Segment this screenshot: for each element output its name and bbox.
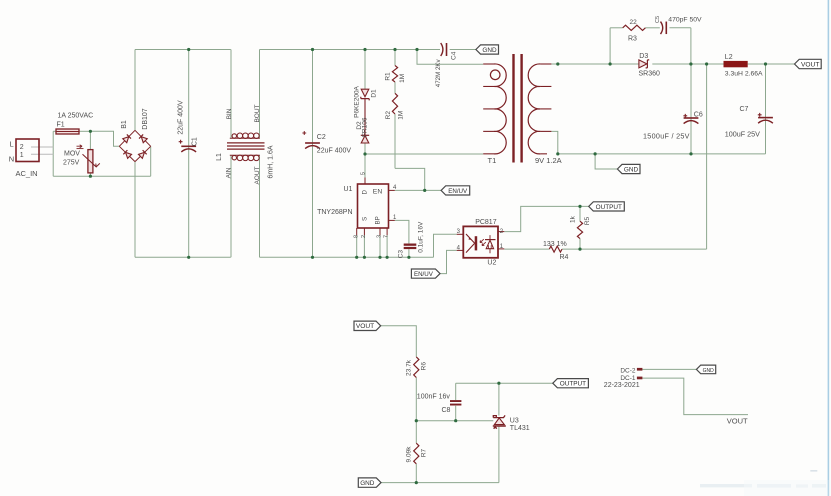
svg-text:C8: C8	[442, 407, 451, 414]
svg-text:BP: BP	[375, 216, 382, 224]
svg-text:3: 3	[377, 235, 383, 238]
svg-text:AIN: AIN	[225, 167, 232, 178]
svg-text:SR360: SR360	[639, 70, 661, 77]
svg-text:1k: 1k	[569, 215, 576, 223]
svg-text:OUTPUT: OUTPUT	[596, 204, 622, 211]
svg-text:U1: U1	[344, 186, 353, 193]
svg-text:9V 1.2A: 9V 1.2A	[535, 156, 562, 165]
svg-text:GND: GND	[703, 368, 715, 374]
svg-text:470pF 50V: 470pF 50V	[668, 17, 702, 24]
svg-text:DC-1: DC-1	[620, 375, 636, 382]
svg-text:EN/UV: EN/UV	[448, 188, 468, 195]
svg-text:U3: U3	[510, 417, 519, 424]
svg-text:23.7k: 23.7k	[405, 359, 412, 376]
svg-text:P6KE200A: P6KE200A	[354, 85, 361, 117]
svg-text:7: 7	[384, 235, 390, 238]
svg-text:L2: L2	[725, 54, 733, 61]
svg-text:0.1uF, 16V: 0.1uF, 16V	[417, 221, 424, 253]
svg-text:22: 22	[630, 19, 638, 26]
svg-text:C4: C4	[451, 51, 458, 60]
svg-text:EN/UV: EN/UV	[414, 271, 434, 278]
svg-text:S: S	[361, 217, 368, 221]
svg-text:5: 5	[361, 172, 367, 175]
svg-text:D3: D3	[639, 53, 648, 60]
svg-text:R2: R2	[385, 111, 392, 120]
svg-text:3.3uH 2.66A: 3.3uH 2.66A	[725, 70, 763, 77]
svg-text:R4: R4	[560, 254, 569, 261]
svg-text:VOUT: VOUT	[801, 61, 819, 68]
svg-text:GND: GND	[624, 166, 639, 173]
svg-text:R1: R1	[385, 72, 392, 81]
svg-text:C6: C6	[694, 112, 703, 119]
svg-text:T1: T1	[488, 156, 497, 165]
svg-text:D1: D1	[371, 89, 378, 98]
svg-text:L1: L1	[216, 153, 223, 161]
svg-text:2: 2	[20, 144, 24, 151]
svg-text:275V: 275V	[63, 159, 80, 166]
svg-text:BOUT: BOUT	[254, 104, 261, 122]
svg-text:1: 1	[20, 152, 24, 159]
svg-text:U2: U2	[487, 260, 496, 267]
svg-text:N: N	[9, 155, 14, 164]
svg-text:100uF 25V: 100uF 25V	[725, 130, 760, 139]
svg-text:PC817: PC817	[475, 219, 497, 226]
svg-text:6mH, 1.6A: 6mH, 1.6A	[268, 145, 275, 178]
svg-text:22uF 400V: 22uF 400V	[317, 148, 352, 155]
svg-text:1M: 1M	[398, 111, 405, 120]
svg-text:VOUT: VOUT	[727, 416, 748, 425]
svg-text:TNY268PN: TNY268PN	[317, 209, 352, 216]
svg-text:BIN: BIN	[226, 108, 233, 119]
svg-text:VOUT: VOUT	[356, 323, 374, 330]
svg-text:8: 8	[353, 235, 359, 238]
svg-text:DB107: DB107	[142, 108, 149, 130]
svg-text:FR106: FR106	[361, 117, 368, 137]
svg-text:D: D	[361, 190, 368, 195]
svg-text:1500uF / 25V: 1500uF / 25V	[643, 132, 690, 141]
svg-text:R3: R3	[628, 36, 637, 43]
svg-text:EN: EN	[373, 188, 383, 195]
svg-text:1A 250VAC: 1A 250VAC	[58, 113, 94, 120]
svg-text:OUTPUT: OUTPUT	[560, 381, 586, 388]
svg-text:AC_IN: AC_IN	[16, 169, 38, 178]
svg-text:TL431: TL431	[510, 425, 530, 432]
svg-text:GND: GND	[360, 480, 375, 487]
svg-text:C3: C3	[398, 250, 405, 259]
svg-text:AOUT: AOUT	[254, 166, 261, 184]
svg-text:L: L	[10, 140, 14, 149]
svg-text:9.09k: 9.09k	[405, 446, 412, 463]
svg-text:GND: GND	[482, 47, 497, 54]
svg-text:R5: R5	[584, 216, 591, 225]
svg-text:133 1%: 133 1%	[543, 241, 567, 248]
svg-text:2: 2	[361, 235, 367, 238]
svg-text:B1: B1	[121, 120, 128, 129]
svg-text:22-23-2021: 22-23-2021	[604, 382, 640, 389]
svg-text:472M 2Kv: 472M 2Kv	[435, 58, 442, 87]
svg-text:22uF 400V: 22uF 400V	[178, 100, 185, 135]
svg-text:R7: R7	[420, 448, 427, 457]
svg-text:C1: C1	[192, 137, 199, 146]
svg-text:100nF 16v: 100nF 16v	[417, 394, 451, 401]
svg-text:1M: 1M	[399, 74, 406, 83]
svg-text:C7: C7	[740, 106, 749, 113]
svg-text:F1: F1	[57, 122, 65, 129]
svg-text:MOV: MOV	[64, 151, 80, 158]
svg-text:R6: R6	[420, 362, 427, 371]
svg-text:C2: C2	[317, 134, 326, 141]
svg-text:DC-2: DC-2	[620, 367, 636, 374]
